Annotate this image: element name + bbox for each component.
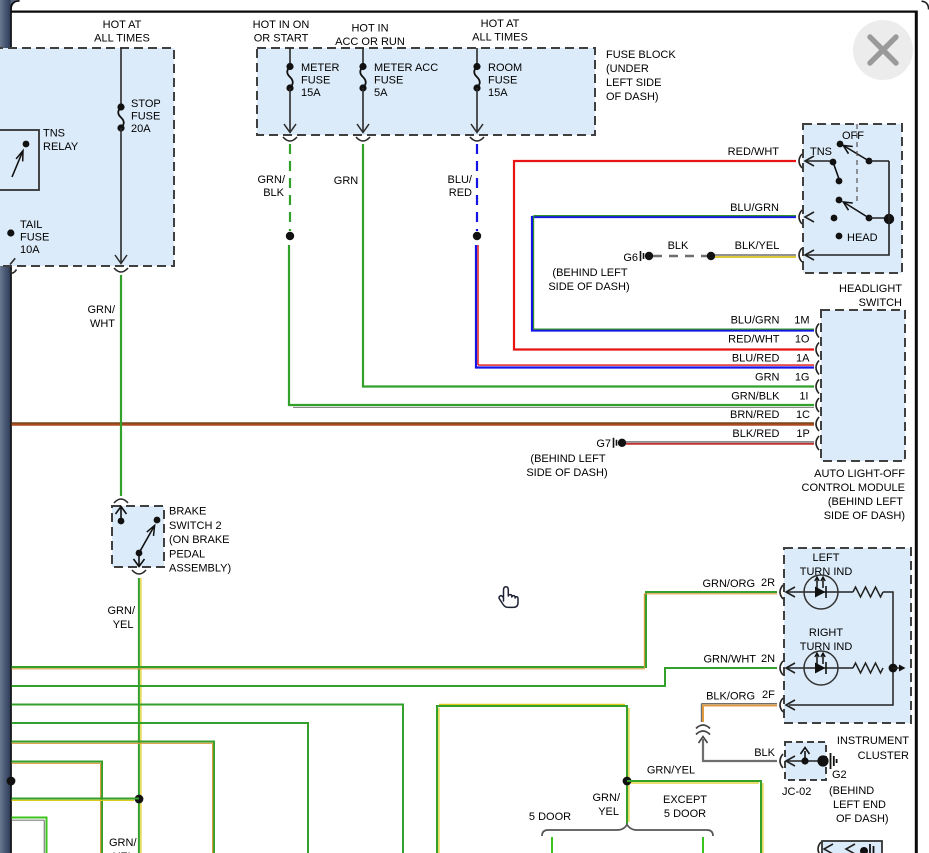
label LEFT TURN IND — [800, 552, 853, 578]
wire BLK dashed from G6 — [653, 240, 707, 256]
wire inside cluster right side — [789, 592, 893, 705]
wire stop fuse feed — [120, 48, 122, 104]
svg-text:GRN/: GRN/ — [593, 792, 621, 804]
svg-text:1P: 1P — [796, 428, 809, 440]
svg-text:CLUSTER: CLUSTER — [858, 750, 909, 762]
label HEADLIGHT SWITCH — [839, 283, 902, 309]
label INSTRUMENT CLUSTER — [837, 735, 909, 762]
svg-text:RIGHT: RIGHT — [809, 627, 844, 639]
label HOT AT ALL TIMES (left) — [94, 19, 150, 45]
close button — [853, 20, 913, 80]
svg-text:10A: 10A — [20, 244, 40, 256]
connector cluster pin 2R — [780, 585, 795, 599]
connector cluster pin 2N — [780, 661, 795, 675]
headlight switch internals — [805, 124, 894, 255]
pin 1M label BLU/GRN — [731, 315, 810, 327]
svg-text:FUSE BLOCK: FUSE BLOCK — [606, 49, 676, 61]
svg-text:HOT AT: HOT AT — [481, 18, 520, 30]
svg-text:HOT IN ON: HOT IN ON — [253, 19, 310, 31]
svg-text:1C: 1C — [796, 409, 810, 421]
label (BEHIND LEFT SIDE OF DASH) under G6 — [548, 267, 629, 293]
ground G7 — [596, 438, 626, 450]
splice node on GRN/BLK — [286, 232, 294, 240]
brace 5-door split — [542, 825, 713, 837]
JC-02 internals with up arrow — [786, 748, 819, 765]
label GRN/YEL bottom left — [109, 837, 137, 853]
wire RED/WHT switch TNS to module 1O — [514, 161, 814, 350]
wire GRN/YEL brake switch down to junction — [108, 578, 141, 853]
svg-text:5 DOOR: 5 DOOR — [529, 811, 571, 823]
wire GRN drop 5 DOOR — [551, 837, 553, 853]
svg-text:GRN/: GRN/ — [88, 304, 116, 316]
svg-text:BRAKE: BRAKE — [169, 506, 206, 518]
svg-text:2N: 2N — [761, 653, 775, 665]
svg-text:RED/WHT: RED/WHT — [728, 146, 780, 158]
junction node GRN/YEL — [623, 777, 632, 786]
svg-text:AUTO LIGHT-OFF: AUTO LIGHT-OFF — [814, 468, 905, 480]
label GRN/ORG 2R — [702, 577, 775, 590]
svg-text:GRN: GRN — [334, 175, 359, 187]
wire BLU/RED dashed from ROOM fuse — [448, 144, 477, 231]
svg-text:FUSE: FUSE — [374, 75, 403, 87]
wire GRN/WHT stop fuse to brake switch — [88, 275, 122, 496]
wire GRN/BLK solid to module 1I — [289, 245, 814, 407]
svg-text:(UNDER: (UNDER — [606, 63, 649, 75]
wire GRN/WHT to cluster 2N — [12, 668, 778, 686]
label EXCEPT 5 DOOR — [663, 794, 707, 820]
junction connector JC-02 box — [785, 742, 826, 780]
svg-text:BRN/RED: BRN/RED — [730, 409, 780, 421]
svg-text:15A: 15A — [301, 87, 321, 99]
resistor left turn — [853, 587, 883, 597]
wire BLK/ORG from cluster 2F — [701, 704, 777, 722]
wire GRN/BLK dashed from METER fuse — [258, 144, 291, 231]
label GRN/ YEL (center bottom) — [593, 792, 621, 818]
connector JC-02 pin — [780, 754, 795, 768]
svg-text:1A: 1A — [796, 353, 810, 365]
ground G6 — [623, 251, 653, 264]
label BLK/ORG 2F — [706, 689, 775, 703]
svg-text:ROOM: ROOM — [488, 62, 522, 74]
connector arc above brake switch — [114, 499, 128, 503]
svg-text:15A: 15A — [488, 87, 508, 99]
wire GRN/YEL riser x=437 over to junction x=627 — [437, 704, 629, 853]
connector arc below left box — [114, 268, 128, 272]
svg-text:SWITCH: SWITCH — [859, 297, 902, 309]
svg-text:LEFT END: LEFT END — [833, 799, 886, 811]
svg-text:GRN/ORG: GRN/ORG — [702, 578, 755, 590]
svg-text:BLK/RED: BLK/RED — [732, 428, 779, 440]
svg-text:BLK: BLK — [668, 240, 689, 252]
brake switch 2 box — [112, 506, 164, 567]
svg-text:LEFT SIDE: LEFT SIDE — [606, 77, 661, 89]
svg-text:GRN/: GRN/ — [109, 837, 137, 849]
svg-text:5A: 5A — [374, 87, 388, 99]
svg-text:WHT: WHT — [90, 318, 115, 330]
label GRN/WHT 2N — [703, 653, 775, 666]
svg-text:(BEHIND: (BEHIND — [829, 785, 874, 797]
pin 1P label BLK/RED — [732, 428, 809, 440]
svg-text:FUSE: FUSE — [20, 232, 49, 244]
svg-text:OR START: OR START — [254, 33, 309, 45]
fuse STOP FUSE 20A — [117, 98, 160, 135]
wire BLK to JC-02 — [703, 739, 777, 761]
svg-text:BLU/GRN: BLU/GRN — [731, 315, 780, 327]
svg-text:STOP: STOP — [131, 98, 161, 110]
splice node at page edge — [7, 777, 16, 786]
connector pin 1O — [816, 343, 819, 357]
svg-text:2F: 2F — [762, 689, 775, 701]
wire GRN/ORG to riser x=214 — [12, 742, 215, 853]
wire GRN drop EXCEPT 5 DOOR — [702, 837, 704, 853]
splice node on BLU/RED — [473, 232, 481, 240]
svg-text:GRN/WHT: GRN/WHT — [703, 654, 756, 666]
wire GRN/YEL page edge to junction — [12, 799, 140, 801]
connector arc below METER fuse — [283, 137, 297, 141]
svg-text:HOT AT: HOT AT — [103, 19, 142, 31]
bottom-right connector box (partial) — [818, 841, 882, 853]
label HOT IN ON OR START — [253, 19, 310, 45]
label (BEHIND LEFT END OF DASH) — [829, 785, 889, 825]
svg-text:GRN/: GRN/ — [108, 605, 136, 617]
svg-text:1I: 1I — [799, 390, 808, 402]
junction node right turn — [889, 664, 898, 673]
label FUSE BLOCK (UNDER LEFT SIDE OF DASH) — [606, 49, 676, 103]
svg-text:OF DASH): OF DASH) — [836, 813, 889, 825]
svg-text:ACC OR RUN: ACC OR RUN — [335, 36, 405, 48]
label (BEHIND LEFT SIDE OF DASH) under G7 — [526, 453, 607, 479]
connector arc below ROOM fuse — [470, 137, 484, 141]
svg-text:RED: RED — [449, 187, 472, 199]
svg-text:PEDAL: PEDAL — [169, 548, 205, 560]
svg-text:SIDE OF DASH): SIDE OF DASH) — [548, 281, 629, 293]
label BRAKE SWITCH 2 (ON BRAKE PEDAL ASSEMBLY) — [169, 506, 231, 575]
LED right turn indicator — [786, 651, 853, 685]
pin 1G label GRN — [755, 372, 809, 384]
headlight switch box — [803, 124, 902, 273]
svg-text:OFF: OFF — [842, 130, 864, 142]
svg-text:G6: G6 — [623, 252, 638, 264]
top-right corner arc fragment — [922, 1, 929, 9]
svg-text:LEFT: LEFT — [813, 552, 840, 564]
svg-text:5 DOOR: 5 DOOR — [664, 808, 706, 820]
svg-text:TNS: TNS — [43, 128, 65, 140]
svg-text:GRN: GRN — [755, 372, 780, 384]
LED left turn indicator — [786, 575, 853, 609]
svg-text:ALL TIMES: ALL TIMES — [94, 33, 150, 45]
fuse panel box (left, TAIL/STOP/TNS) — [0, 48, 174, 266]
pin 1A label BLU/RED — [732, 353, 810, 365]
svg-text:GRN/YEL: GRN/YEL — [647, 765, 695, 777]
wire BLK/RED G7 to module 1P — [626, 442, 814, 444]
connector cluster pin 2F — [780, 698, 795, 712]
connector pin 1A — [816, 361, 819, 375]
svg-text:1M: 1M — [794, 315, 809, 327]
svg-text:(BEHIND LEFT: (BEHIND LEFT — [552, 267, 627, 279]
connector pin 1I — [816, 398, 819, 412]
connector arc below METER ACC fuse — [356, 137, 370, 141]
relay TNS RELAY — [0, 128, 79, 191]
svg-text:G7: G7 — [596, 438, 611, 450]
svg-text:GRN/: GRN/ — [258, 174, 286, 186]
svg-text:RELAY: RELAY — [43, 141, 79, 153]
connector pin 1G — [816, 380, 819, 394]
svg-text:SWITCH 2: SWITCH 2 — [169, 520, 222, 532]
svg-text:BLU/GRN: BLU/GRN — [730, 202, 779, 214]
svg-text:SIDE OF DASH): SIDE OF DASH) — [526, 467, 607, 479]
svg-text:EXCEPT: EXCEPT — [663, 794, 707, 806]
svg-text:ALL TIMES: ALL TIMES — [472, 32, 528, 44]
wire GRN horizontal to riser x=308 — [12, 723, 309, 853]
junction node on GRN/YEL at left — [135, 795, 144, 804]
splice node on BLK — [707, 252, 715, 260]
wire GRN/YEL junction to riser x=761 — [627, 781, 763, 853]
wire break symbol — [696, 725, 710, 743]
auto light-off control module box — [821, 310, 905, 461]
svg-text:INSTRUMENT: INSTRUMENT — [837, 735, 909, 747]
label HOT AT ALL TIMES (middle) — [472, 18, 528, 44]
svg-text:ASSEMBLY): ASSEMBLY) — [169, 563, 231, 575]
wire GRN horizontal to riser x=403 — [12, 705, 404, 853]
ground G2 — [817, 753, 846, 781]
svg-text:RED/WHT: RED/WHT — [728, 334, 780, 346]
wire BLU/RED solid to module 1A — [476, 245, 814, 368]
pin 1C label BRN/RED — [730, 409, 810, 421]
pin 1O label RED/WHT — [728, 334, 810, 346]
fuse METER ACC FUSE 5A — [357, 48, 438, 133]
brake switch internals — [116, 507, 161, 567]
wire BLU/GRN switch to module 1M — [532, 216, 814, 331]
wire BLK/YEL to headlight switch — [715, 240, 796, 257]
connector arc fragment bottom-left of box — [10, 270, 17, 274]
svg-text:1O: 1O — [795, 334, 810, 346]
mouse cursor — [499, 587, 518, 608]
svg-text:(BEHIND LEFT: (BEHIND LEFT — [828, 496, 903, 508]
svg-text:BLK: BLK — [754, 747, 775, 759]
svg-text:HOT IN: HOT IN — [351, 23, 388, 35]
arrow continuation right — [893, 665, 906, 672]
fuse METER FUSE 15A — [284, 48, 340, 133]
svg-text:1G: 1G — [795, 372, 810, 384]
fuse TAIL FUSE 10A (cut at page edge) — [7, 219, 49, 265]
wire GRN from METER ACC fuse to module 1G — [334, 144, 814, 387]
svg-text:BLK: BLK — [263, 187, 284, 199]
svg-text:HEADLIGHT: HEADLIGHT — [839, 283, 902, 295]
wire BRN/RED full width to module 1C — [12, 423, 815, 425]
connector arc below brake switch — [132, 570, 146, 574]
svg-text:TAIL: TAIL — [20, 219, 42, 231]
svg-text:20A: 20A — [131, 123, 151, 135]
svg-text:BLK/YEL: BLK/YEL — [735, 240, 780, 252]
svg-text:FUSE: FUSE — [131, 111, 160, 123]
svg-text:TNS: TNS — [810, 146, 832, 158]
label AUTO LIGHT-OFF CONTROL MODULE (BEHIND LEFT SIDE OF DASH) — [802, 468, 906, 522]
connector at switch TNS pin — [799, 154, 814, 168]
svg-text:FUSE: FUSE — [488, 75, 517, 87]
svg-text:SIDE OF DASH): SIDE OF DASH) — [824, 510, 905, 522]
svg-text:YEL: YEL — [113, 619, 134, 631]
svg-text:G2: G2 — [832, 769, 847, 781]
connector at switch BLK/YEL pin — [799, 248, 814, 262]
wire GRN/ORG to riser x=102 — [12, 762, 103, 853]
resistor right turn — [853, 663, 883, 673]
svg-text:JC-02: JC-02 — [782, 786, 811, 798]
svg-text:BLU/RED: BLU/RED — [732, 353, 780, 365]
svg-text:OF DASH): OF DASH) — [606, 91, 659, 103]
svg-text:METER: METER — [301, 62, 340, 74]
svg-text:YEL: YEL — [598, 806, 619, 818]
pin 1I label GRN/BLK — [731, 390, 808, 402]
svg-text:(BEHIND LEFT: (BEHIND LEFT — [530, 453, 605, 465]
svg-text:BLU/: BLU/ — [448, 174, 473, 186]
label RIGHT TURN IND — [800, 627, 853, 653]
svg-text:METER ACC: METER ACC — [374, 62, 438, 74]
svg-text:(ON BRAKE: (ON BRAKE — [169, 534, 230, 546]
svg-text:FUSE: FUSE — [301, 75, 330, 87]
svg-text:GRN/BLK: GRN/BLK — [731, 390, 780, 402]
connector pin 1M — [816, 324, 819, 338]
fuse ROOM FUSE 15A — [471, 48, 522, 133]
wire GRN corner bottom-left with BLK — [12, 818, 47, 853]
label HOT IN ACC OR RUN — [335, 23, 405, 49]
wire stop fuse output with down arrow — [115, 128, 127, 264]
svg-text:HEAD: HEAD — [847, 232, 878, 244]
svg-text:2R: 2R — [761, 577, 775, 589]
svg-text:CONTROL MODULE: CONTROL MODULE — [802, 482, 906, 494]
instrument cluster box — [784, 548, 911, 723]
connector at switch BLU/GRN pin — [799, 210, 814, 224]
connector pin 1P — [816, 436, 819, 450]
connector pin 1C — [816, 417, 819, 431]
wire GRN/ORG to cluster 2R — [12, 592, 778, 669]
fuse block box (top middle) — [257, 48, 595, 135]
svg-text:BLK/ORG: BLK/ORG — [706, 691, 755, 703]
